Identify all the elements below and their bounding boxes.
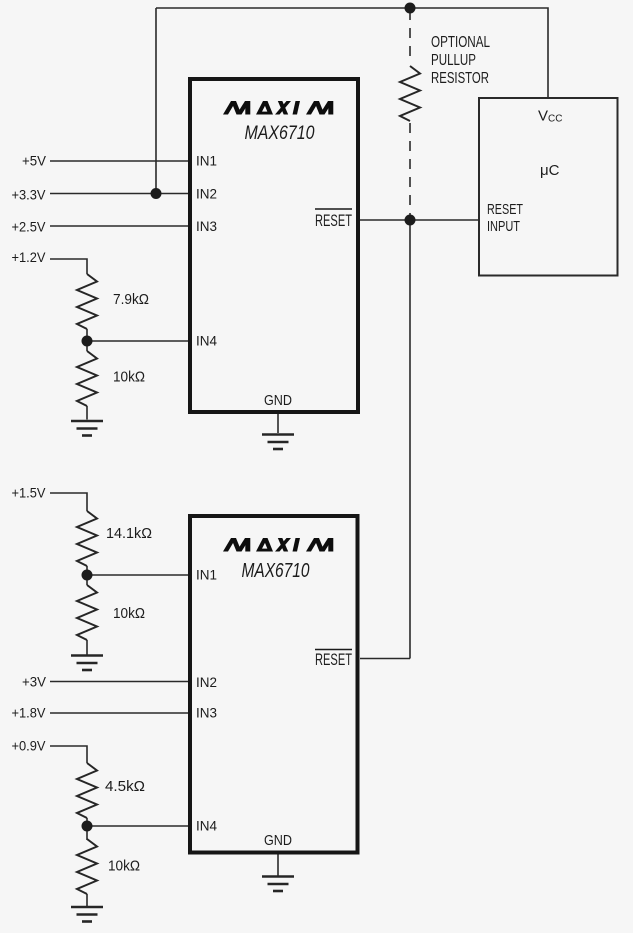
svg-text:+1.8V: +1.8V [12, 705, 47, 721]
svg-text:RESISTOR: RESISTOR [431, 70, 489, 87]
svg-text:+3V: +3V [22, 674, 47, 690]
svg-text:IN4: IN4 [196, 333, 217, 349]
svg-text:IN2: IN2 [196, 674, 217, 690]
svg-text:IN1: IN1 [196, 567, 217, 583]
svg-text:RESET: RESET [315, 212, 352, 230]
svg-text:IN2: IN2 [196, 186, 217, 202]
svg-text:GND: GND [264, 392, 292, 409]
svg-text:4.5kΩ: 4.5kΩ [105, 779, 145, 795]
svg-text:PULLUP: PULLUP [431, 52, 476, 69]
svg-text:GND: GND [264, 832, 292, 849]
svg-text:+1.5V: +1.5V [12, 485, 47, 501]
svg-text:IN4: IN4 [196, 818, 217, 834]
svg-text:+0.9V: +0.9V [12, 738, 47, 754]
svg-text:OPTIONAL: OPTIONAL [431, 34, 490, 51]
svg-text:+2.5V: +2.5V [12, 219, 47, 235]
svg-text:10kΩ: 10kΩ [113, 370, 145, 386]
svg-text:RESET: RESET [315, 651, 352, 669]
svg-text:10kΩ: 10kΩ [108, 859, 140, 875]
svg-text:RESET: RESET [487, 202, 523, 218]
svg-text:MAX6710: MAX6710 [242, 560, 310, 582]
svg-text:+1.2V: +1.2V [12, 249, 47, 265]
svg-text:MAX6710: MAX6710 [245, 122, 315, 144]
svg-text:μC: μC [540, 162, 560, 179]
svg-text:INPUT: INPUT [487, 219, 520, 235]
svg-text:10kΩ: 10kΩ [113, 606, 145, 622]
svg-text:+3.3V: +3.3V [12, 187, 47, 203]
svg-text:IN1: IN1 [196, 153, 217, 169]
svg-text:14.1kΩ: 14.1kΩ [106, 526, 152, 542]
svg-text:+5V: +5V [22, 153, 47, 169]
svg-text:7.9kΩ: 7.9kΩ [113, 292, 149, 308]
svg-text:IN3: IN3 [196, 218, 217, 234]
svg-text:IN3: IN3 [196, 705, 217, 721]
